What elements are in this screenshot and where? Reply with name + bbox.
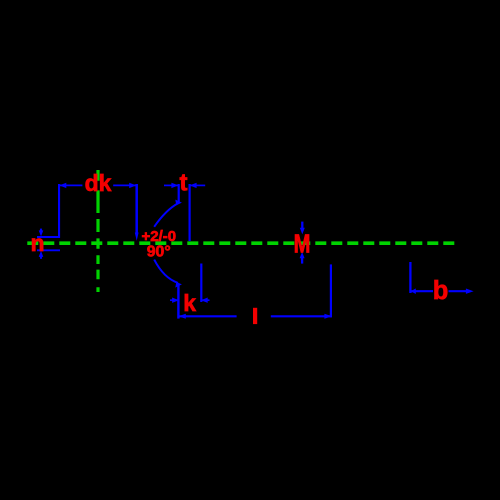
dimension k dimension line right segment with arrow: [201, 299, 209, 301]
label l: [253, 308, 257, 324]
dimension dk left extension line: [58, 184, 60, 238]
angle lower leader arrowhead: [175, 282, 182, 288]
horizontal centerline: [27, 241, 455, 245]
svg-text:dk: dk: [85, 170, 112, 196]
dimension dk right arrow: [129, 183, 136, 188]
svg-text:b: b: [433, 277, 449, 305]
svg-text:t: t: [180, 170, 188, 197]
dimension k right extension line: [200, 264, 202, 303]
angle 90 degree upper leader curve: [154, 203, 178, 227]
vertical centerline: [96, 170, 99, 292]
svg-text:90°: 90°: [147, 244, 171, 261]
dimension b extension line: [409, 262, 411, 293]
dimension t left extension line: [178, 184, 180, 203]
dimension l right extension line: [330, 264, 332, 317]
dimension k dimension line left segment with arrow: [170, 299, 179, 301]
dimension dk right extension down arrow: [135, 233, 139, 241]
dimension n top line: [37, 236, 60, 238]
dimension b dimension line right segment with arrow: [449, 290, 471, 292]
dimension l dimension line left segment with arrow: [178, 315, 236, 317]
dimension M lower arrow: [301, 257, 303, 264]
angle 90 degree lower leader curve: [154, 260, 178, 283]
dimension dk dimension line left segment: [59, 184, 82, 186]
dimension t right extension line: [189, 184, 191, 241]
dimension n lower arrow: [40, 255, 42, 258]
dimension n bottom line: [37, 249, 60, 251]
svg-text:n: n: [30, 230, 44, 256]
dimension dk right extension line: [135, 184, 138, 233]
dimension t dimension line left segment with arrow: [164, 184, 178, 186]
angle upper leader arrowhead: [175, 200, 182, 206]
svg-text:M: M: [294, 231, 311, 259]
dimension b dimension line left segment with arrow: [411, 290, 433, 292]
head face vertical line lower segment: [177, 283, 179, 318]
dimension t dimension line right segment with arrow: [190, 184, 205, 186]
dimension l dimension line right segment with arrow: [271, 315, 332, 317]
dimension dk left arrow: [59, 183, 66, 188]
dimension M upper arrow: [301, 222, 303, 229]
svg-text:+2/-0: +2/-0: [141, 228, 176, 245]
dimension dk dimension line right segment: [113, 184, 136, 186]
dimension n upper arrow: [40, 229, 42, 232]
svg-text:k: k: [183, 290, 196, 316]
